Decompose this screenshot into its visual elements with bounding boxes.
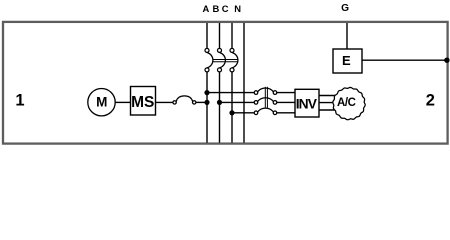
breaker linkage bar [212, 60, 238, 62]
wire INV to A/C top [319, 95, 341, 97]
svg-text:1: 1 [15, 92, 24, 110]
wire INV to A/C middle [319, 102, 341, 104]
wire phase A tap (level 1) [207, 92, 254, 94]
generator G lead wire [346, 23, 348, 49]
svg-text:E: E [342, 53, 351, 68]
junction dot bus A level 1 [204, 90, 209, 95]
breaker pole C [230, 48, 238, 72]
svg-text:A/C: A/C [337, 97, 356, 109]
bus B wire upper segment [219, 23, 221, 48]
wire contactor to INV row 2 [277, 101, 295, 103]
wire phase C tap (level 3) [232, 112, 254, 114]
svg-text:M: M [96, 94, 107, 109]
contactor pole 1 [254, 88, 277, 94]
bus C wire upper segment [231, 23, 233, 48]
wire INV to A/C bottom [319, 109, 341, 111]
wire M to MS [115, 101, 130, 103]
junction dot bus C level 3 [229, 110, 234, 115]
svg-text:A: A [203, 3, 210, 14]
svg-text:B: B [213, 3, 220, 14]
switch S1 [173, 96, 196, 104]
svg-text:C: C [222, 3, 229, 14]
breaker pole A [205, 48, 213, 72]
breaker pole B [218, 48, 226, 72]
svg-text:G: G [341, 3, 349, 14]
frame rectangle [3, 22, 448, 144]
wire contactor to INV row 3 [277, 112, 295, 114]
svg-text:N: N [234, 3, 241, 14]
inverter INV [295, 89, 319, 117]
bus C wire lower segment [231, 72, 233, 143]
wire switch to bus A [196, 101, 207, 103]
svg-text:2: 2 [426, 92, 435, 110]
air conditioner A/C [333, 87, 365, 119]
wire phase B tap (level 2) [220, 101, 255, 103]
box E [333, 49, 362, 73]
motor starter MS [131, 87, 156, 116]
contactor pole 3 [254, 108, 277, 114]
wire MS to switch [156, 101, 174, 103]
svg-text:MS: MS [131, 94, 154, 111]
junction dot bus B level 2 [217, 100, 222, 105]
motor M [88, 89, 115, 116]
junction dot at right frame [444, 58, 449, 63]
contactor linkage bar [265, 87, 267, 108]
wire E to right frame [362, 59, 448, 61]
junction dot bus A / motor feed [204, 100, 209, 105]
bus N wire [243, 23, 245, 143]
svg-text:INV: INV [296, 97, 318, 112]
bus A wire lower segment [206, 72, 208, 143]
contactor pole 2 [254, 98, 277, 104]
bus A wire upper segment [206, 23, 208, 48]
wire contactor to INV row 1 [277, 92, 295, 94]
bus B wire lower segment [219, 72, 221, 143]
